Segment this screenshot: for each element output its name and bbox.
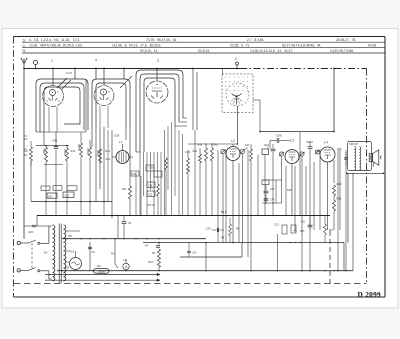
svg-text:C104: C104 bbox=[306, 140, 313, 144]
svg-text:R12: R12 bbox=[148, 260, 153, 264]
svg-text:4, 7,8, 1,2,3,4, 9,6, 11,1: 4, 7,8, 1,2,3,4, 9,6, 11,18, 17,4. bbox=[29, 38, 80, 42]
cluster top links bbox=[262, 179, 282, 181]
mains switch upper bbox=[20, 242, 28, 244]
wire x112 bbox=[111, 130, 113, 218]
component cluster C32 bbox=[147, 191, 155, 196]
tube V3 lead bbox=[156, 69, 158, 82]
left stems continue to lower rail bbox=[45, 202, 47, 216]
svg-text:C36: C36 bbox=[148, 185, 153, 187]
IF tube T3 bbox=[285, 150, 299, 164]
svg-text:R15: R15 bbox=[300, 230, 305, 233]
tuning indicator tube V4 bbox=[226, 83, 249, 106]
mains terminal upper bbox=[17, 241, 20, 244]
short link rail bbox=[44, 163, 63, 165]
rail y270.7 main earth bbox=[57, 270, 353, 272]
wire bundle from V3 loops bbox=[139, 152, 141, 216]
output tube T4 bbox=[320, 147, 335, 162]
capacitor across primary bbox=[344, 157, 348, 159]
speaker magnet lead bbox=[373, 163, 375, 168]
svg-text:S13: S13 bbox=[264, 143, 269, 147]
wire x104 down bbox=[103, 127, 105, 202]
svg-text:C32: C32 bbox=[148, 194, 153, 196]
svg-text:C4: C4 bbox=[145, 244, 149, 248]
riser x302 to earth bbox=[301, 230, 303, 271]
oscillator feed wires bbox=[74, 69, 76, 80]
wire stub near eye bbox=[253, 99, 260, 101]
riser x251 to earth bbox=[250, 216, 252, 271]
component box mid2 bbox=[154, 171, 162, 177]
wire x90 with cap C5 bbox=[89, 242, 91, 271]
svg-text:L5: L5 bbox=[123, 258, 127, 262]
svg-text:10023: 10023 bbox=[86, 148, 89, 155]
boxes under G bbox=[282, 225, 287, 234]
svg-text:C10: C10 bbox=[301, 221, 306, 224]
svg-text:R11: R11 bbox=[71, 149, 76, 153]
coupling wires V1 V2 bottoms bbox=[43, 132, 45, 146]
svg-text:R1: R1 bbox=[152, 251, 156, 255]
cluster cap box C37 bbox=[262, 180, 269, 185]
svg-text:506 527: 506 527 bbox=[350, 143, 359, 146]
top supply bus wire bbox=[24, 68, 240, 70]
resistor R5 bbox=[89, 147, 92, 158]
antenna bbox=[21, 58, 24, 64]
tube V1 wiring loop inner bbox=[40, 83, 84, 132]
aerial feed wire left bbox=[23, 69, 25, 239]
switch arm S2 bbox=[120, 76, 132, 88]
svg-text:14,26,12,13,14,9, 41, 44,27,: 14,26,12,13,14,9, 41, 44,27, bbox=[250, 49, 293, 53]
tube V1 wiring loop innermost bbox=[44, 87, 80, 132]
cluster capacitor C37 bbox=[264, 190, 269, 192]
svg-text:52,9,13,: 52,9,13, bbox=[198, 49, 210, 53]
svg-text:3: 3 bbox=[157, 59, 159, 63]
grid feed wire x314 bbox=[313, 162, 315, 230]
svg-text:C99: C99 bbox=[276, 134, 282, 138]
left components rail bbox=[36, 145, 69, 147]
trimmer right of T2 bbox=[240, 149, 244, 153]
tube V3 wiring loop outer bbox=[136, 70, 183, 152]
resistor R16 bbox=[165, 158, 168, 170]
cluster rail bbox=[262, 202, 282, 204]
svg-text:1: 1 bbox=[51, 59, 53, 63]
small boxes row upper bbox=[41, 186, 50, 190]
trimmer right of T3 bbox=[300, 152, 304, 156]
resistor R40 bbox=[187, 158, 190, 174]
tube V1 lead bbox=[52, 69, 54, 86]
riser x353 speaker return bbox=[352, 173, 354, 270]
svg-text:L4: L4 bbox=[324, 141, 328, 145]
svg-text:30004: 30004 bbox=[77, 144, 80, 151]
tuning indicator fan bbox=[232, 94, 242, 97]
pentode tube V3 bbox=[146, 81, 168, 103]
riser x206 to earth bbox=[205, 243, 207, 271]
band switch arm S1 bbox=[57, 78, 67, 88]
component C31 box bbox=[131, 171, 139, 176]
HT horizontal wire to IF bbox=[260, 131, 334, 133]
svg-text:R1: R1 bbox=[24, 153, 28, 157]
main decoupling rail y215.5 bbox=[37, 215, 330, 217]
svg-text:94,92.: 94,92. bbox=[368, 44, 377, 48]
vertical riser x277 bbox=[277, 234, 279, 271]
riser x310 to earth bbox=[309, 243, 311, 271]
svg-text:C13: C13 bbox=[66, 71, 72, 75]
arrow wire 2 bbox=[45, 279, 160, 281]
resistor under C33 bbox=[229, 224, 232, 236]
mains switch lower bbox=[20, 269, 28, 271]
wire x115 from rail238 bbox=[114, 239, 116, 243]
svg-text:D 2099: D 2099 bbox=[358, 290, 382, 299]
svg-text:13,30, 46/47(+38),46, 19,39,9: 13,30, 46/47(+38),46, 19,39,9, 1,63. bbox=[29, 44, 83, 48]
svg-text:L2: L2 bbox=[231, 139, 235, 143]
capacitor C104 bbox=[308, 146, 313, 148]
riser x344 bbox=[343, 243, 345, 271]
rail y257 bbox=[180, 256, 242, 258]
svg-text:C26: C26 bbox=[28, 230, 34, 234]
tuning indicator screen rectangle bbox=[222, 74, 253, 113]
svg-text:4: 4 bbox=[95, 59, 97, 63]
left AVC rail bbox=[31, 201, 112, 203]
svg-text:S:: S: bbox=[23, 38, 26, 42]
svg-text:R:: R: bbox=[23, 49, 27, 53]
resistor pair R13 bbox=[205, 148, 208, 161]
svg-text:C19: C19 bbox=[274, 224, 279, 227]
capacitor C99 bbox=[276, 138, 278, 143]
svg-text:C56: C56 bbox=[114, 134, 120, 138]
T3 leads down bbox=[291, 164, 293, 216]
chassis dashed bottom bbox=[14, 283, 367, 285]
svg-text:S2: S2 bbox=[111, 252, 115, 256]
wire x118 down bbox=[117, 216, 119, 239]
capacitor C8 bottom bbox=[122, 221, 127, 223]
component box mid bbox=[146, 165, 154, 171]
tube V2 lead bbox=[103, 69, 105, 86]
resistor R4 bbox=[80, 143, 83, 157]
L1 side leads bbox=[112, 156, 116, 158]
svg-text:5A: 5A bbox=[44, 251, 48, 255]
tube V1 wiring loop outer bbox=[36, 79, 88, 132]
svg-text:R23: R23 bbox=[337, 182, 342, 186]
resistor near C36 bbox=[157, 184, 160, 196]
svg-text:L6: L6 bbox=[71, 250, 75, 254]
svg-text:L3: L3 bbox=[290, 139, 294, 143]
T4 leads down bbox=[327, 162, 329, 230]
resistor R4a bbox=[199, 154, 202, 163]
svg-text:C43: C43 bbox=[185, 150, 190, 154]
eye box top stub bbox=[222, 69, 224, 75]
svg-text:2N: 2N bbox=[245, 148, 248, 151]
tube V2 electrode drop wires bbox=[99, 106, 101, 128]
tube V3 loop feed wires bbox=[192, 69, 194, 131]
capacitor C75 bbox=[271, 148, 276, 150]
svg-text:R4 b: R4 b bbox=[221, 210, 227, 214]
drawing border frame bbox=[14, 36, 386, 38]
capacitor C46 bbox=[54, 146, 59, 148]
svg-text:20513: 20513 bbox=[63, 149, 66, 156]
resistor R2 bbox=[45, 147, 48, 162]
svg-text:2,7. 8,3,84.: 2,7. 8,3,84. bbox=[247, 38, 264, 42]
resistor R26 bbox=[333, 200, 336, 211]
tube V1 loop bottom links bbox=[36, 131, 86, 133]
svg-text:14,87,28,7,5,88.: 14,87,28,7,5,88. bbox=[330, 49, 354, 53]
trimmer left of T4 bbox=[315, 150, 319, 154]
bus junction dots bbox=[23, 68, 25, 70]
svg-text:10000: 10000 bbox=[97, 270, 105, 274]
vertical wires right G bbox=[285, 166, 287, 216]
IF tube T2 bbox=[226, 147, 240, 161]
top link to L2 bbox=[188, 143, 238, 145]
trimmer left of T3 bbox=[279, 152, 283, 156]
resistor R6 box 10000 bbox=[94, 269, 110, 274]
svg-text:92,9,12, 11,: 92,9,12, 11, bbox=[140, 49, 158, 53]
triode tube V2 bbox=[94, 86, 114, 106]
resistor R343 bbox=[250, 149, 253, 161]
svg-text:26,54,27, 78.: 26,54,27, 78. bbox=[336, 38, 356, 42]
resistor R3 bbox=[66, 148, 69, 161]
tube V3 wiring loop 3 bbox=[144, 78, 175, 152]
HT feed wire from bus bbox=[333, 69, 335, 132]
svg-text:C:: C: bbox=[23, 44, 27, 48]
svg-text:112,46, 8, 54,12, 17,6, 38: 112,46, 8, 54,12, 17,6, 38,39,9, bbox=[112, 44, 161, 48]
svg-text:C47: C47 bbox=[48, 195, 53, 198]
svg-text:C75: C75 bbox=[267, 148, 272, 150]
power transformer core bbox=[58, 224, 60, 284]
rail y242.5 bbox=[143, 242, 344, 244]
output transformer can box bbox=[348, 142, 372, 171]
tube V2 wiring loop outer bbox=[92, 79, 130, 128]
riser x348 bbox=[347, 173, 349, 242]
mains terminal lower bbox=[17, 269, 20, 272]
T2 leads down bbox=[232, 161, 234, 243]
resistor R6a bbox=[99, 149, 102, 163]
chassis dashed vertical x330 bbox=[329, 231, 331, 284]
svg-text:C46: C46 bbox=[52, 139, 58, 143]
secondary taps bbox=[66, 230, 80, 232]
wires down to rail bbox=[135, 172, 137, 216]
arrow wire 1 bbox=[45, 274, 160, 276]
resistor R17 bbox=[129, 186, 132, 199]
parts table row lines bbox=[22, 41, 385, 43]
component cluster C36 bbox=[147, 182, 155, 187]
svg-text:74,75, 96,47,46, 16.: 74,75, 96,47,46, 16. bbox=[146, 38, 177, 42]
switch link dashed bbox=[31, 243, 33, 270]
svg-text:C30: C30 bbox=[149, 167, 154, 170]
power transformer secondary winding bbox=[64, 225, 66, 281]
svg-text:R18: R18 bbox=[287, 189, 292, 192]
svg-text:R8: R8 bbox=[68, 234, 72, 238]
C26 connecting wires bbox=[24, 225, 32, 227]
vertical wires between rails F bbox=[194, 130, 196, 216]
tube V1 electrode drop wires bbox=[48, 107, 50, 132]
resistor bottom right bbox=[324, 224, 327, 235]
phono input terminal bbox=[33, 60, 37, 64]
tuning indicator shading dots bbox=[224, 76, 227, 79]
tuning indicator lead down bbox=[237, 106, 239, 144]
primary feed wires bbox=[48, 226, 50, 243]
triode-hexode tube V1 bbox=[43, 86, 64, 107]
mains capacitor C26 bbox=[32, 224, 36, 226]
resistor R23 bbox=[333, 185, 336, 196]
power transformer primary winding bbox=[53, 225, 55, 281]
cathode wire x346 bbox=[345, 150, 347, 230]
capacitor C14 bbox=[187, 250, 191, 252]
tube V2 wiring loop inner bbox=[96, 83, 126, 128]
svg-text:C37: C37 bbox=[270, 189, 275, 191]
rail y238.7 bbox=[62, 238, 206, 240]
loudspeaker bbox=[369, 154, 372, 162]
chassis dash-dot right vertical bbox=[366, 69, 368, 284]
screen wire x340 bbox=[339, 150, 341, 230]
rail vertical tail x37 bbox=[36, 216, 38, 227]
cluster capacitor C74 bbox=[264, 198, 269, 200]
svg-text:23,35, 9, 71.: 23,35, 9, 71. bbox=[230, 44, 250, 48]
svg-text:C74: C74 bbox=[270, 200, 275, 202]
output transformer secondary bbox=[359, 147, 361, 171]
svg-text:50002: 50002 bbox=[96, 150, 99, 157]
capacitor C35 box bbox=[63, 192, 74, 198]
svg-text:R26: R26 bbox=[337, 197, 342, 201]
svg-text:82,17,48,74,3,8,45/46, 44,: 82,17,48,74,3,8,45/46, 44, bbox=[282, 44, 321, 48]
svg-text:C53 41: C53 41 bbox=[147, 203, 156, 207]
tube V3 wiring loop 2 bbox=[140, 74, 179, 152]
capacitor C47 box bbox=[47, 193, 57, 198]
capacitor C107 bbox=[308, 224, 313, 226]
svg-text:343: 343 bbox=[245, 144, 250, 147]
switch S2 wire bbox=[114, 243, 116, 264]
svg-text:C33: C33 bbox=[206, 227, 211, 231]
svg-text:L1: L1 bbox=[119, 140, 123, 144]
resistor R1 bottom bbox=[158, 249, 161, 268]
S13 component box bbox=[262, 149, 269, 155]
svg-text:40517: 40517 bbox=[42, 148, 45, 155]
terminal near frame bbox=[380, 156, 381, 160]
output transformer primary bbox=[354, 147, 356, 171]
svg-text:C35: C35 bbox=[65, 195, 70, 198]
svg-text:C14: C14 bbox=[192, 252, 197, 255]
loop to bundle connectors bbox=[183, 117, 187, 119]
dial lamp L5 bbox=[123, 263, 129, 269]
svg-text:R6: R6 bbox=[97, 264, 101, 268]
IF transformer L1 can bbox=[116, 151, 129, 164]
resistor R1 bbox=[30, 147, 33, 161]
svg-text:R47: R47 bbox=[122, 188, 127, 191]
speaker return wire y173 bbox=[347, 172, 384, 174]
L2 feed from top bbox=[232, 144, 234, 147]
wire x108 down bbox=[107, 130, 109, 202]
trimmer left of T2 bbox=[221, 149, 225, 153]
pilot lamp L6 bbox=[70, 258, 82, 270]
svg-text:R5: R5 bbox=[66, 266, 70, 270]
